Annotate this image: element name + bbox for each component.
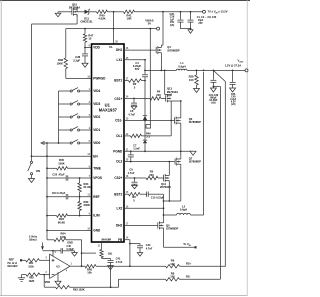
- svg-text:14: 14: [126, 237, 129, 240]
- wire Q7 drain: [180, 167, 182, 201]
- svg-text:4.7nF: 4.7nF: [116, 260, 123, 264]
- wire DL1 riser: [170, 121, 172, 136]
- terminal To VIN: [183, 242, 196, 248]
- svg-text:RS-: RS-: [186, 275, 191, 279]
- svg-text:(x8): (x8): [211, 103, 215, 105]
- svg-text:2N7002A: 2N7002A: [69, 5, 80, 9]
- svg-text:R63 102K: R63 102K: [73, 288, 85, 292]
- op-amp U2: [46, 254, 73, 278]
- wire op-amp output: [70, 265, 85, 267]
- ground: [45, 280, 61, 285]
- op-amp U1 MAX1937 controller IC: [87, 42, 129, 248]
- svg-text:EN: EN: [93, 154, 98, 158]
- svg-text:80.6K: 80.6K: [58, 220, 65, 224]
- svg-text:7V ≤ VIN ≤ 13.2V: 7V ≤ VIN ≤ 13.2V: [208, 9, 228, 14]
- svg-text:VID1: VID1: [93, 128, 100, 132]
- wire DH2: [124, 224, 158, 226]
- ground: [181, 28, 194, 34]
- switch S2 VID3: [59, 101, 92, 105]
- svg-text:0.6µH: 0.6µH: [178, 64, 185, 68]
- wire VL pin: [113, 12, 115, 44]
- svg-text:REF: REF: [93, 195, 99, 199]
- svg-text:SI7868DP: SI7868DP: [189, 160, 201, 164]
- resistor R54: [100, 250, 113, 259]
- node VID bus junction: [46, 142, 58, 144]
- node REF: [8, 257, 26, 268]
- resistor R2: [124, 79, 146, 90]
- svg-text:10R: 10R: [127, 17, 132, 21]
- ground: [137, 253, 142, 257]
- switch S5 VID0: [59, 140, 92, 144]
- transistor Q5: [158, 220, 179, 230]
- inductor L1: [176, 61, 187, 70]
- wire GND sense drop: [81, 240, 83, 267]
- svg-text:ILIM: ILIM: [93, 214, 100, 218]
- svg-text:200: 200: [156, 93, 161, 97]
- ground: [190, 151, 196, 155]
- wire op-amp supply: [43, 250, 61, 252]
- wire VID bus: [58, 91, 60, 144]
- transistor Q7: [175, 157, 201, 167]
- capacitor C41: [108, 257, 123, 266]
- wire CS1+: [124, 98, 150, 100]
- wire left rail: [31, 24, 33, 156]
- resistor R63 feedback: [44, 275, 118, 292]
- svg-text:10k: 10k: [87, 271, 92, 275]
- ground: [194, 89, 200, 93]
- resistor R23: [78, 197, 90, 216]
- svg-text:4: 4: [89, 127, 91, 130]
- diode D7: [143, 121, 147, 153]
- capacitor C40: [61, 245, 75, 254]
- svg-text:0.22µF: 0.22µF: [67, 248, 75, 251]
- svg-text:BST1: BST1: [114, 79, 122, 83]
- ground: [131, 106, 137, 109]
- wire boost riser: [163, 194, 165, 220]
- svg-text:2.2µF: 2.2µF: [73, 59, 80, 63]
- ground: [82, 63, 88, 67]
- svg-text:C24 0.47µF: C24 0.47µF: [52, 191, 66, 195]
- wire left bus: [46, 143, 48, 231]
- node RS+: [180, 262, 226, 267]
- resistor R22: [47, 214, 92, 224]
- capacitor C6: [128, 98, 137, 116]
- capacitor C1-C8 C43 input bank: [188, 12, 217, 29]
- resistor R38: [57, 29, 68, 79]
- wire VIN rail: [135, 11, 203, 13]
- border frame: [0, 0, 250, 296]
- resistor R9: [166, 259, 180, 268]
- resistor R34: [78, 178, 91, 197]
- wire RS- sense drop: [213, 87, 220, 280]
- svg-text:4.7nF: 4.7nF: [128, 171, 135, 175]
- ground: [55, 12, 61, 17]
- wire: [89, 11, 97, 13]
- transistor Q15: [69, 3, 80, 17]
- svg-text:100k: 100k: [60, 235, 66, 239]
- svg-text:10Ω: 10Ω: [108, 252, 113, 255]
- capacitor C28: [73, 48, 88, 64]
- svg-text:FB: FB: [118, 238, 123, 242]
- terminal VOUT: [225, 58, 248, 72]
- svg-text:102K: 102K: [29, 280, 35, 283]
- svg-text:DH1: DH1: [116, 48, 123, 52]
- svg-text:VPOS: VPOS: [93, 176, 102, 180]
- svg-text:CS1-: CS1-: [115, 119, 122, 123]
- resistor R41: [124, 10, 135, 21]
- resistor R40: [97, 10, 108, 21]
- svg-text:VID2: VID2: [93, 115, 100, 119]
- svg-text:0.6µH: 0.6µH: [180, 208, 187, 212]
- switch S3 VID2: [59, 114, 92, 118]
- svg-text:VID4: VID4: [93, 89, 100, 93]
- svg-text:VDD: VDD: [93, 46, 100, 50]
- wire Q5 source to VIN: [164, 230, 195, 247]
- wire LX1: [124, 59, 146, 61]
- wire op-amp V+ pin 5: [53, 251, 57, 257]
- capacitor C25: [47, 172, 92, 180]
- svg-text:CS1+: CS1+: [114, 97, 122, 101]
- svg-text:C25 .47µF: C25 .47µF: [52, 172, 65, 176]
- svg-text:2.2: 2.2: [147, 136, 151, 139]
- transistor Q13: [166, 87, 179, 104]
- svg-text:PGND: PGND: [113, 149, 123, 153]
- resistor R6: [124, 193, 147, 203]
- resistor R47: [83, 29, 94, 48]
- resistor R28: [189, 70, 199, 88]
- svg-text:61.9K: 61.9K: [84, 185, 91, 189]
- resistor R5: [146, 170, 164, 180]
- node VL junction: [108, 11, 124, 13]
- svg-text:25V: 25V: [198, 22, 203, 25]
- ground: [18, 275, 26, 282]
- svg-text:SI7868DP: SI7868DP: [189, 120, 201, 124]
- resistor R46: [124, 132, 171, 138]
- resistor R60: [85, 265, 166, 275]
- svg-text:RS+: RS+: [186, 262, 192, 266]
- svg-text:100: 100: [170, 275, 175, 279]
- svg-text:50V: 50V: [135, 67, 140, 71]
- switch ON: [28, 156, 40, 178]
- diode D11: [80, 9, 93, 23]
- capacitor C7: [128, 143, 141, 161]
- svg-text:To VIN: To VIN: [183, 242, 191, 247]
- svg-text:4.02K: 4.02K: [98, 17, 105, 21]
- svg-text:ON: ON: [36, 169, 40, 173]
- svg-text:100: 100: [170, 262, 175, 266]
- node RS-: [180, 275, 221, 280]
- wire CC pin: [101, 242, 103, 250]
- svg-text:BST2: BST2: [114, 192, 122, 196]
- svg-text:10: 10: [88, 37, 91, 41]
- svg-text:100K: 100K: [57, 61, 63, 65]
- svg-text:100: 100: [189, 78, 194, 82]
- wire Q14 source to DL2: [168, 162, 170, 173]
- switch S1 VID4: [59, 88, 92, 92]
- wire L2 to VOUT: [191, 72, 204, 215]
- capacitor C43: [130, 244, 153, 253]
- ground: [230, 88, 236, 92]
- wire Q15 source drop: [32, 14, 78, 24]
- component box 2x: [146, 125, 151, 129]
- capacitor C10 bootstrap: [147, 192, 165, 200]
- wire CS1-: [124, 120, 175, 122]
- transistor Q1: [156, 45, 180, 55]
- svg-text:(x5): (x5): [170, 24, 174, 27]
- svg-text:GND: GND: [93, 229, 101, 233]
- ground: [108, 266, 114, 270]
- wire PGND: [124, 150, 193, 152]
- wire Q7 source to PGND: [180, 151, 182, 156]
- svg-text:CMOZ12L: CMOZ12L: [80, 19, 93, 23]
- resistor R4: [150, 90, 166, 101]
- svg-text:LX1: LX1: [117, 58, 123, 62]
- wire: [77, 9, 84, 12]
- resistor R61: [26, 259, 50, 269]
- transistor Q14: [160, 173, 171, 189]
- svg-text:1.5nF: 1.5nF: [133, 147, 140, 151]
- wire CS2+: [124, 177, 146, 179]
- wire phase node link: [163, 200, 181, 202]
- capacitor C9: [128, 168, 138, 186]
- svg-text:3: 3: [46, 257, 48, 259]
- svg-text:5: 5: [55, 252, 57, 254]
- wire R63 riser: [110, 265, 112, 287]
- svg-text:U1: U1: [105, 102, 111, 107]
- svg-text:1.2V @ 27.3A: 1.2V @ 27.3A: [225, 64, 241, 68]
- wire Q3 drain: [180, 101, 182, 116]
- svg-text:2N7002A: 2N7002A: [167, 90, 178, 94]
- switch S4 VID1: [59, 127, 92, 131]
- ground: [72, 253, 78, 257]
- svg-text:LX2: LX2: [117, 206, 123, 210]
- wire FB pin: [124, 240, 131, 267]
- wire VIN to Q1 drain: [161, 12, 163, 45]
- diode D5: [143, 81, 147, 121]
- svg-text:200K: 200K: [84, 203, 90, 207]
- svg-text:Pin 12 of: Pin 12 of: [8, 263, 18, 265]
- capacitor C26 C29 input bank: [169, 12, 183, 29]
- resistor R64: [54, 232, 82, 242]
- capacitor C24: [47, 191, 92, 199]
- svg-text:4.7nF: 4.7nF: [128, 112, 135, 116]
- wire LX2: [124, 207, 164, 209]
- svg-text:DH2: DH2: [116, 224, 123, 228]
- ground: [210, 88, 216, 92]
- capacitor C31-C38 output bank: [209, 70, 219, 104]
- svg-text:4.7nF: 4.7nF: [146, 247, 153, 250]
- capacitor C4 bootstrap: [133, 61, 148, 81]
- svg-text:SI7868DP: SI7868DP: [166, 227, 178, 231]
- resistor R62: [26, 273, 50, 283]
- svg-text:VID0: VID0: [93, 141, 100, 145]
- wire RS- row: [119, 279, 166, 287]
- wire VDD rail: [66, 28, 152, 30]
- node VBIAS 5V: [145, 18, 159, 30]
- wire RS+ sense drop: [213, 70, 225, 266]
- resistor R8: [166, 271, 180, 281]
- svg-text:4: 4: [66, 270, 68, 273]
- wire GND pin: [47, 229, 92, 231]
- wire: [58, 11, 72, 13]
- svg-text:2: 2: [46, 272, 48, 274]
- transistor Q3: [175, 116, 202, 126]
- svg-text:VID3: VID3: [93, 102, 100, 106]
- svg-text:REF: REF: [9, 257, 15, 261]
- ground: [29, 179, 35, 183]
- wire LX node: [144, 55, 176, 71]
- wire VBIAS rail down: [149, 29, 151, 125]
- node 5V bias: [29, 234, 44, 250]
- wire L2 row: [164, 214, 177, 216]
- wire arrow to VSS: [41, 142, 47, 145]
- svg-text:U2: U2: [56, 265, 60, 269]
- node GND: [67, 242, 73, 245]
- wire VDD pin: [84, 47, 91, 49]
- wire Q13 source: [170, 103, 172, 120]
- svg-text:VDD: VDD: [45, 280, 51, 284]
- svg-text:(Bias): (Bias): [29, 237, 36, 241]
- svg-text:(x6): (x6): [231, 104, 235, 106]
- ground: [132, 185, 138, 188]
- wire op-amp V- pin: [57, 272, 59, 281]
- svg-text:200: 200: [149, 173, 154, 177]
- svg-text:PWRGD: PWRGD: [93, 77, 106, 81]
- svg-text:C10 0.22µF: C10 0.22µF: [151, 197, 165, 200]
- wire GND sense: [47, 230, 54, 239]
- svg-text:100K: 100K: [58, 161, 64, 165]
- wire EN: [31, 155, 92, 157]
- svg-text:TIME: TIME: [93, 166, 101, 170]
- capacitor C36 C40 output bank: [230, 70, 237, 106]
- inductor L2: [177, 205, 191, 216]
- wire Q13 bulk link: [171, 100, 182, 102]
- wire DL2 to Q7 gate: [124, 161, 175, 163]
- wire Q13 drain to LX: [165, 70, 172, 94]
- wire Q14 drain: [168, 183, 170, 202]
- svg-text:VOUT: VOUT: [238, 58, 245, 63]
- svg-text:DL2: DL2: [116, 160, 122, 164]
- resistor R35: [47, 158, 92, 170]
- svg-text:CS2+: CS2+: [114, 176, 122, 180]
- svg-text:VL: VL: [109, 45, 113, 49]
- svg-text:SI7868DP: SI7868DP: [167, 48, 179, 52]
- terminal VIN: [203, 9, 228, 14]
- wire PWRGD: [66, 77, 92, 79]
- wire: [82, 252, 96, 254]
- wire VOUT rail: [187, 70, 245, 72]
- svg-text:MAX1937: MAX1937: [8, 265, 19, 268]
- svg-text:1: 1: [71, 263, 73, 265]
- svg-text:102k: 102k: [28, 265, 34, 268]
- svg-text:11: 11: [97, 246, 100, 248]
- wire DH1: [124, 49, 156, 51]
- svg-text:MAXIM: MAXIM: [102, 238, 112, 242]
- wire Q3 source to PGND: [180, 126, 182, 152]
- svg-text:DL1: DL1: [116, 134, 122, 138]
- svg-text:MAX1937: MAX1937: [99, 108, 118, 113]
- svg-text:5V: 5V: [148, 22, 151, 26]
